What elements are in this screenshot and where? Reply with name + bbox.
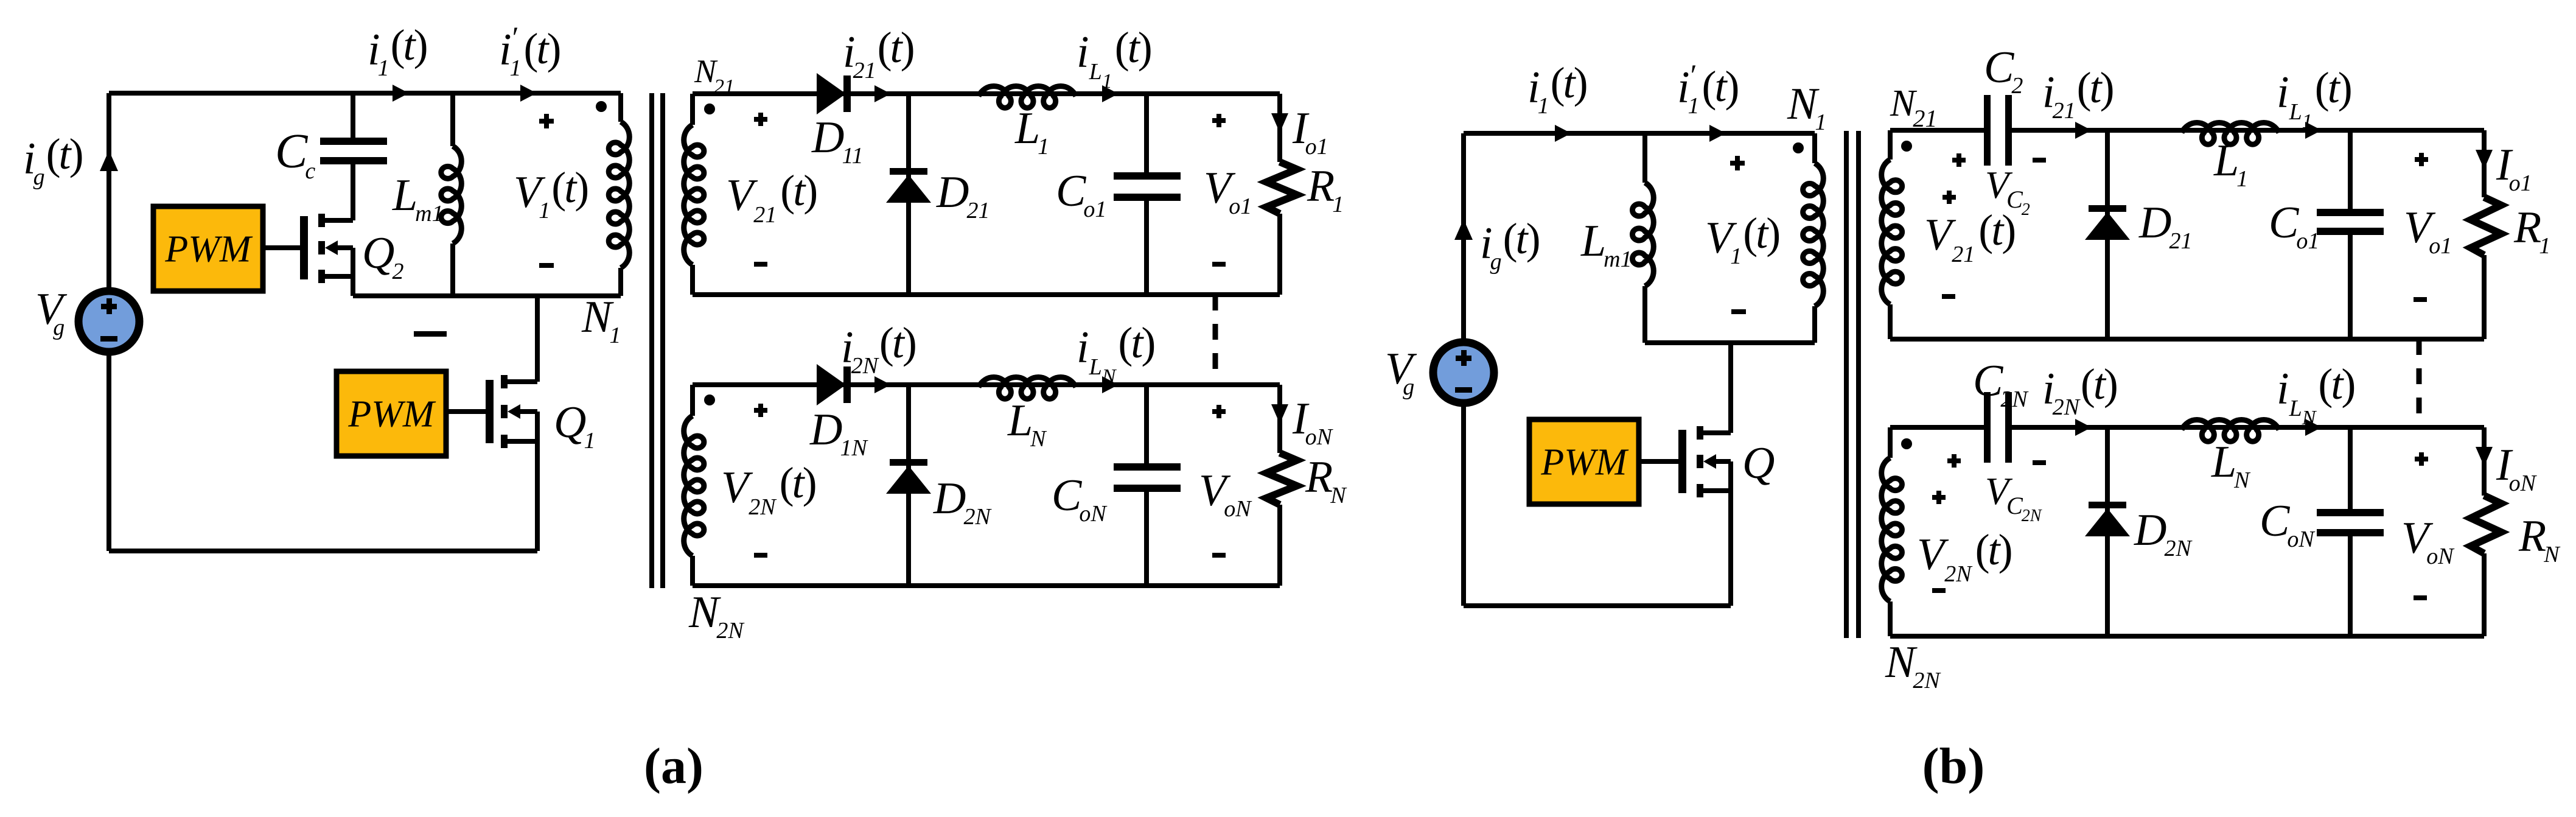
svg-text:PWM: PWM	[1540, 442, 1629, 483]
svg-text:PWM: PWM	[164, 229, 253, 270]
svg-text:Vg: Vg	[35, 284, 68, 340]
svg-text:(b): (b)	[1922, 738, 1985, 794]
svg-text:(a): (a)	[644, 738, 703, 794]
svg-text:i′1(t): i′1(t)	[499, 20, 561, 81]
svg-text:PWM: PWM	[347, 394, 436, 435]
svg-text:i′1(t): i′1(t)	[1677, 58, 1739, 119]
svg-text:Vg: Vg	[1385, 344, 1417, 400]
svg-text:Q: Q	[1742, 438, 1775, 488]
